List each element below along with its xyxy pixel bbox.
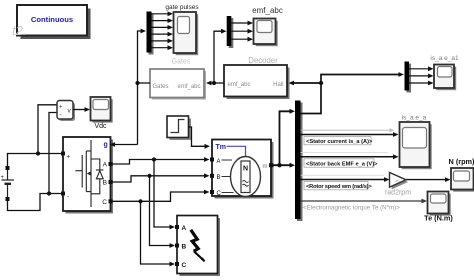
wire gates out up to demux (138, 31, 142, 83)
svg-text:is_a e_a1: is_a e_a1 (430, 55, 459, 62)
DC voltage source battery (2, 166, 15, 197)
bridge C port (109, 199, 113, 203)
gate pulses demux (149, 14, 154, 55)
bridge + port (61, 152, 65, 156)
wire battery+ to bridge+ (8, 154, 63, 167)
demux2 to scope arrows (409, 69, 429, 83)
demux to scope arrows (152, 14, 169, 48)
bridge B port (109, 180, 113, 184)
svg-text:Decoder: Decoder (248, 56, 278, 65)
wire step to Tm (189, 127, 207, 146)
svg-text:t2.: t2. (12, 23, 26, 38)
svg-text:+: + (59, 105, 63, 111)
three-phase fault block (177, 216, 220, 277)
svg-text:is_a e_a: is_a e_a (402, 115, 427, 122)
svg-text:gate pulses: gate pulses (165, 4, 199, 11)
fault B port (175, 244, 179, 248)
node gates out (135, 81, 139, 85)
svg-text:-K-: -K- (395, 178, 401, 183)
svg-text:N (rpm): N (rpm) (449, 157, 474, 166)
gates subsystem block (150, 69, 206, 100)
svg-text:emf_abc: emf_abc (177, 84, 200, 90)
motor C port (210, 190, 214, 194)
svg-text:g: g (104, 142, 108, 149)
wire bridge C to motor C (113, 192, 207, 201)
demux top right (407, 64, 412, 93)
svg-text:Vdc: Vdc (94, 123, 107, 130)
svg-text:<Rotor speed wm (rad/s)>: <Rotor speed wm (rad/s)> (306, 184, 372, 190)
node A (152, 157, 156, 161)
node hall (319, 81, 323, 85)
bridge A port (109, 162, 113, 166)
wire decoder out to emf mux (214, 31, 222, 83)
svg-text:emf_abc: emf_abc (252, 6, 283, 15)
wire torque to Te scope (301, 200, 424, 202)
svg-text:<Stator current is_a (A)>: <Stator current is_a (A)> (306, 139, 373, 145)
wire m riser to bus selector top input (280, 111, 292, 165)
svg-text:+: + (67, 154, 71, 161)
scope Te (428, 192, 451, 216)
wire node to voltage measurement + (38, 105, 57, 154)
decoder block (224, 65, 290, 99)
svg-text:<Electromagnetic torque Te (N*: <Electromagnetic torque Te (N*m)> (303, 205, 400, 212)
svg-text:Hall: Hall (273, 82, 283, 88)
wire bridge B to motor B (113, 176, 207, 182)
label back EMF (304, 159, 374, 167)
svg-text:C: C (217, 191, 222, 197)
label rotor speed (304, 181, 368, 189)
node B (147, 174, 151, 178)
emf mux (229, 18, 234, 48)
bus selector bar (297, 103, 303, 222)
svg-text:emf_abc: emf_abc (228, 82, 251, 88)
svg-text:A: A (182, 225, 187, 232)
wire node A to fault A (154, 160, 172, 228)
wire node B to fault B (150, 176, 172, 246)
step block Tm source (167, 116, 191, 140)
diode D1 inside bridge (91, 159, 103, 194)
wire battery- to bridge- (8, 194, 63, 211)
wire node C to fault C (141, 201, 172, 264)
svg-text:Gates: Gates (153, 84, 169, 90)
motor stubs (222, 160, 234, 193)
fault C port (175, 262, 179, 266)
emf mux to scope arrows (231, 23, 248, 39)
node decoder out (212, 81, 216, 85)
svg-text:-: - (60, 113, 62, 119)
motor m port (269, 163, 274, 167)
PMSM motor block (212, 140, 274, 199)
powergui block Continuous (17, 5, 91, 39)
wire gain to N scope (406, 179, 447, 181)
svg-text:B: B (182, 244, 187, 251)
svg-text:Gates: Gates (172, 59, 191, 66)
magnet N S (241, 161, 250, 193)
svg-text:<Stator back EMF e_a (V)>: <Stator back EMF e_a (V)> (306, 161, 378, 167)
motor A port (210, 158, 214, 162)
gain rad2rpm (390, 173, 409, 190)
svg-text:A: A (103, 162, 108, 169)
bridge - port (61, 192, 65, 196)
scope Vdc (91, 97, 113, 123)
wire decoder output to gates (211, 82, 225, 84)
node m (277, 163, 281, 167)
wire rotor speed to gain (301, 179, 386, 181)
label stator current (304, 137, 371, 145)
wire node to voltage measurement - (49, 113, 57, 194)
fault A port (175, 225, 179, 229)
svg-text:B: B (103, 180, 107, 187)
svg-text:m: m (263, 164, 268, 170)
svg-text:+: + (1, 175, 5, 181)
wire back EMF to scope (301, 156, 395, 158)
battery + port (6, 166, 10, 170)
svg-text:C: C (102, 199, 107, 206)
svg-text:N: N (243, 166, 248, 173)
universal bridge (MOSFET inverter) (63, 137, 113, 214)
motor B port (210, 174, 214, 178)
node C (138, 199, 142, 203)
svg-text:A: A (217, 159, 221, 165)
wire g input (114, 144, 138, 146)
battery - port (6, 197, 10, 201)
scope gate pulses (174, 12, 199, 55)
svg-text:Continuous: Continuous (31, 15, 73, 24)
node battery- / VM- (47, 191, 51, 195)
svg-text:B: B (217, 175, 221, 181)
svg-text:rad2rpm: rad2rpm (385, 189, 411, 196)
svg-text:-: - (67, 194, 69, 201)
lightning bolt icon (191, 230, 198, 251)
wire hall output (301, 75, 401, 114)
wire gates out down to bridge g (137, 83, 139, 145)
wire VM to Vdc display (73, 109, 86, 111)
motor Tm wire blue (227, 146, 246, 157)
wire gates output (138, 82, 151, 84)
scope is_a e_a1 (434, 65, 456, 91)
scope N rpm (451, 168, 474, 192)
svg-text:Te (N.m): Te (N.m) (424, 214, 453, 223)
wire bridge A to motor A (113, 160, 207, 165)
MOSFET Q1 inside bridge (75, 140, 91, 207)
wire stator current to scope (301, 134, 395, 136)
scope is_a e_a (400, 122, 432, 169)
svg-text:C: C (182, 262, 187, 269)
wire hall to decoder (293, 82, 322, 84)
wire m to bus selector (274, 164, 292, 166)
scope emf_abc (254, 19, 278, 47)
node battery+ / VM+ (36, 151, 40, 155)
motor rotor circle (231, 157, 261, 197)
voltage measurement block Vdc (57, 101, 75, 122)
faint spare wire (301, 129, 392, 131)
svg-text:Tm: Tm (216, 144, 227, 151)
